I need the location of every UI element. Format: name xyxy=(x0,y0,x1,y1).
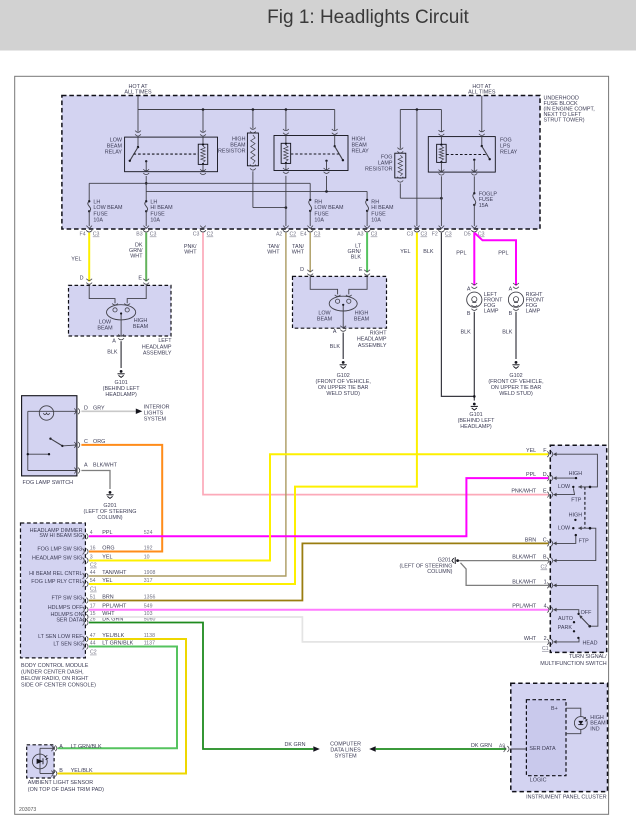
BCM pin 54 YEL 317 xyxy=(31,578,152,587)
wire BLK right headlamp ground xyxy=(330,333,343,359)
svg-text:WHT: WHT xyxy=(184,250,197,256)
svg-text:F4: F4 xyxy=(80,232,86,238)
title banner xyxy=(0,0,636,51)
svg-text:1356: 1356 xyxy=(144,594,156,600)
svg-text:C1: C1 xyxy=(542,646,549,652)
svg-text:A3: A3 xyxy=(357,232,363,238)
svg-text:D: D xyxy=(80,275,84,281)
ground G102 right fog lamp xyxy=(488,361,544,397)
switch connector C2 label xyxy=(541,565,548,571)
wire YEL fog relay control to BCM and dimmer switch feed xyxy=(89,233,417,584)
wire DK GRN serial data into cluster xyxy=(499,744,556,753)
svg-text:549: 549 xyxy=(144,603,153,609)
svg-text:LT SEN SIG: LT SEN SIG xyxy=(53,642,82,648)
svg-text:A9: A9 xyxy=(499,744,505,750)
svg-text:HEADLAMP): HEADLAMP) xyxy=(105,392,137,398)
indicator high beam IND xyxy=(566,708,606,734)
ground G101 left fog lamp xyxy=(458,403,496,430)
svg-text:HI BEAM: HI BEAM xyxy=(150,205,173,211)
wire GRY to interior lights system xyxy=(81,405,169,423)
connector C3 C3 at fuse block bottom xyxy=(407,226,428,238)
svg-text:WHT: WHT xyxy=(524,636,537,642)
svg-text:A: A xyxy=(467,286,471,292)
svg-text:TURN SIGNAL/: TURN SIGNAL/ xyxy=(569,654,607,660)
body control module xyxy=(21,523,97,688)
BCM pin 3 YEL 10 xyxy=(32,554,150,563)
svg-text:FTP: FTP xyxy=(579,538,590,544)
svg-text:LOGIC: LOGIC xyxy=(530,777,547,783)
svg-text:HEAD: HEAD xyxy=(583,641,598,647)
svg-text:4: 4 xyxy=(90,530,93,536)
svg-text:RESISTOR: RESISTOR xyxy=(365,166,393,172)
multifunction switch terminal 2 WHT xyxy=(524,636,553,645)
BCM pin 26 DK GRN 5060 xyxy=(56,616,155,625)
wire BLK/WHT switch B to ground G201 xyxy=(459,560,548,562)
wire TAN/WHT to right headlamp low beam xyxy=(292,233,310,273)
svg-text:BEAM: BEAM xyxy=(133,324,149,330)
BCM pin 51 BRN 1356 xyxy=(51,594,155,603)
svg-text:54: 54 xyxy=(90,578,96,584)
svg-text:BLK: BLK xyxy=(107,349,118,355)
BCM pin 44 TAN/WHT 1908 xyxy=(29,570,155,579)
svg-text:LAMP: LAMP xyxy=(484,308,499,314)
svg-text:MULTIFUNCTION SWITCH: MULTIFUNCTION SWITCH xyxy=(540,661,606,667)
svg-text:FTP SW SIG: FTP SW SIG xyxy=(51,596,82,602)
connector A2 C2 at fuse block bottom xyxy=(276,226,296,238)
svg-text:LT SEN LOW REF: LT SEN LOW REF xyxy=(38,634,83,640)
ambient light sensor xyxy=(27,744,104,793)
ground G201 left of steering column xyxy=(84,491,137,521)
svg-text:C2: C2 xyxy=(207,232,214,238)
svg-text:RESISTOR: RESISTOR xyxy=(218,148,246,154)
svg-text:C3: C3 xyxy=(193,232,200,238)
underhood fuse block xyxy=(62,95,595,229)
svg-text:YEL: YEL xyxy=(400,249,410,255)
svg-text:C3: C3 xyxy=(421,232,428,238)
svg-text:BLK/WHT: BLK/WHT xyxy=(512,579,537,585)
svg-text:BLK: BLK xyxy=(502,329,513,335)
svg-text:A: A xyxy=(59,744,63,750)
svg-text:YEL/BLK: YEL/BLK xyxy=(102,633,124,639)
svg-text:COLUMN): COLUMN) xyxy=(427,569,452,575)
wire BLK right fog lamp ground xyxy=(502,312,516,359)
svg-text:E: E xyxy=(543,489,547,495)
svg-text:WELD STUD): WELD STUD) xyxy=(326,391,360,397)
wire DK GRN 5060 serial data xyxy=(89,623,313,750)
svg-text:10: 10 xyxy=(144,554,150,560)
svg-text:LOW: LOW xyxy=(558,526,571,532)
svg-text:BLK: BLK xyxy=(460,329,471,335)
multifunction switch terminal D PPL xyxy=(526,472,553,481)
svg-text:C3: C3 xyxy=(150,232,157,238)
wire PPL fog lamp feed left xyxy=(456,233,474,286)
svg-text:C2: C2 xyxy=(541,565,548,571)
svg-text:B: B xyxy=(509,311,513,317)
svg-text:17: 17 xyxy=(90,603,96,609)
svg-text:BLK/WHT: BLK/WHT xyxy=(512,555,537,561)
svg-text:RIGHT: RIGHT xyxy=(370,330,387,336)
fuse F1 LH low beam fuse 10A xyxy=(88,199,123,226)
svg-text:WHT: WHT xyxy=(130,254,143,260)
switch connector C1 label xyxy=(542,646,549,652)
svg-text:10A: 10A xyxy=(150,217,160,223)
svg-text:203073: 203073 xyxy=(19,807,36,813)
ground G101 behind left headlamp xyxy=(103,370,141,398)
svg-text:HDLMPS OFF: HDLMPS OFF xyxy=(48,605,83,611)
wire BLK/WHT switch 1 to ground xyxy=(461,563,549,586)
wire WHT 103 BCM to switch 2 xyxy=(89,617,548,642)
svg-text:WHT: WHT xyxy=(292,250,305,256)
svg-text:STRUT TOWER): STRUT TOWER) xyxy=(544,117,585,123)
svg-text:RELAY: RELAY xyxy=(105,149,123,155)
wire YEL 10 BCM to dimmer switch F xyxy=(89,454,548,560)
wire ORG fog switch signal to BCM xyxy=(81,445,162,552)
svg-text:10A: 10A xyxy=(371,217,381,223)
svg-text:BRN: BRN xyxy=(525,537,536,543)
svg-text:FOG LMP RLY CTRL: FOG LMP RLY CTRL xyxy=(31,579,82,585)
svg-text:A: A xyxy=(112,339,116,345)
svg-text:A: A xyxy=(333,329,337,335)
svg-text:LOW BEAM: LOW BEAM xyxy=(314,205,344,211)
BCM pin 44 LT GRN/BLK 1137 xyxy=(53,640,155,649)
wire BLK left headlamp ground xyxy=(107,341,121,368)
ground G201 near multifunction switch xyxy=(399,557,459,575)
resistor high beam resistor xyxy=(218,128,287,209)
wire BRN 1356 BCM to switch C xyxy=(89,543,548,600)
BCM pin 16 ORG 192 xyxy=(37,545,152,554)
connector C3 C2 at fuse block bottom xyxy=(193,226,214,238)
wire fog relay coil to F2 connector xyxy=(440,176,442,226)
svg-text:COLUMN): COLUMN) xyxy=(97,515,122,521)
svg-text:C2: C2 xyxy=(90,563,97,569)
svg-text:AUTO: AUTO xyxy=(558,616,573,622)
svg-text:C3: C3 xyxy=(407,232,414,238)
svg-text:PPL: PPL xyxy=(456,250,466,256)
multifunction switch terminal 1 BLK/WHT xyxy=(512,579,553,588)
lamp right front fog lamp xyxy=(508,283,544,317)
svg-text:ASSEMBLY: ASSEMBLY xyxy=(358,343,387,349)
svg-text:B: B xyxy=(543,555,547,561)
svg-text:HIGH: HIGH xyxy=(569,512,583,518)
multifunction switch terminal B BLK/WHT xyxy=(512,555,553,564)
resistor fog lamp resistor xyxy=(365,148,443,200)
BCM pin 4 PPL 524 xyxy=(30,528,153,539)
BCM pin 47 YEL/BLK 1138 xyxy=(38,633,155,642)
svg-text:1137: 1137 xyxy=(144,640,155,646)
svg-text:BEAM: BEAM xyxy=(354,316,370,322)
svg-text:44: 44 xyxy=(90,640,96,646)
svg-text:(UNDER CENTER DASH,: (UNDER CENTER DASH, xyxy=(21,669,84,675)
svg-text:C: C xyxy=(543,537,547,543)
svg-text:PPL/WHT: PPL/WHT xyxy=(102,604,127,610)
svg-text:BLK: BLK xyxy=(351,255,362,261)
svg-text:10A: 10A xyxy=(314,217,324,223)
BCM connector C1 label xyxy=(90,587,97,593)
svg-text:HIGH: HIGH xyxy=(569,471,583,477)
svg-text:A: A xyxy=(84,463,88,469)
instrument panel cluster xyxy=(511,683,608,800)
connector F4 C3 at fuse block bottom xyxy=(80,226,100,238)
svg-text:RELAY: RELAY xyxy=(500,149,518,155)
left headlamp assembly xyxy=(69,275,173,356)
wire high beam relay output to fuses xyxy=(146,176,367,200)
svg-text:ASSEMBLY: ASSEMBLY xyxy=(143,351,172,357)
svg-text:D: D xyxy=(300,267,304,273)
wire main power rail xyxy=(138,108,335,131)
svg-text:47: 47 xyxy=(90,633,96,639)
BCM pin 15 WHT 103 xyxy=(50,611,152,620)
svg-text:LT GRN/BLK: LT GRN/BLK xyxy=(102,640,133,646)
svg-text:PPL: PPL xyxy=(102,530,112,536)
svg-text:ORG: ORG xyxy=(102,545,114,551)
svg-text:192: 192 xyxy=(144,545,153,551)
wire low beam relay output to fuses xyxy=(89,176,310,201)
svg-text:YEL: YEL xyxy=(102,578,112,584)
svg-text:BELOW RADIO, ON RIGHT: BELOW RADIO, ON RIGHT xyxy=(21,676,89,682)
svg-text:BODY CONTROL MODULE: BODY CONTROL MODULE xyxy=(21,663,89,669)
svg-text:10A: 10A xyxy=(93,217,103,223)
svg-text:B3: B3 xyxy=(136,232,142,238)
multifunction switch terminal F YEL xyxy=(526,448,553,457)
svg-text:YEL: YEL xyxy=(71,256,81,262)
svg-text:YEL/BLK: YEL/BLK xyxy=(71,768,93,774)
svg-text:HEADLAMP SW SIG: HEADLAMP SW SIG xyxy=(32,556,83,562)
node HOT AT ALL TIMES right feed xyxy=(468,84,496,132)
svg-text:F2: F2 xyxy=(432,232,438,238)
svg-text:LOW BEAM: LOW BEAM xyxy=(93,205,123,211)
svg-text:BLK/WHT: BLK/WHT xyxy=(93,463,118,469)
svg-text:FTP: FTP xyxy=(571,498,582,504)
wire PPL 524 BCM to dimmer switch D xyxy=(89,478,548,536)
multifunction switch terminal 4 PPL/WHT xyxy=(512,604,553,613)
lamp left front fog lamp xyxy=(467,283,503,317)
svg-text:BLK: BLK xyxy=(330,344,341,350)
svg-text:BEAM: BEAM xyxy=(317,316,333,322)
flash to pass switch section internals xyxy=(553,512,596,562)
BCM pin 17 PPL/WHT 549 xyxy=(48,603,153,612)
svg-text:D: D xyxy=(543,472,547,478)
svg-text:ALL TIMES: ALL TIMES xyxy=(468,90,496,96)
svg-text:HEADLAMP): HEADLAMP) xyxy=(460,424,492,430)
svg-text:C2: C2 xyxy=(290,232,297,238)
wire LT GRN/BLK to right headlamp high beam xyxy=(348,233,368,273)
svg-text:SIDE OF CENTER CONSOLE): SIDE OF CENTER CONSOLE) xyxy=(21,682,96,688)
svg-text:BLK: BLK xyxy=(423,249,434,255)
svg-text:PPL: PPL xyxy=(526,472,536,478)
relay K1 low beam relay xyxy=(105,131,218,175)
wire high beam relay coil to A2 connector xyxy=(285,176,287,226)
svg-text:BEAM: BEAM xyxy=(97,326,113,332)
svg-text:HEADLAMP: HEADLAMP xyxy=(142,344,172,350)
svg-text:524: 524 xyxy=(144,530,153,536)
connector A3 C3 at fuse block bottom xyxy=(357,226,377,238)
wire BLK left fog lamp ground xyxy=(460,312,475,401)
svg-text:HEADLAMP: HEADLAMP xyxy=(357,337,387,343)
svg-text:51: 51 xyxy=(90,594,96,600)
BCM connector C2 label lower xyxy=(90,650,97,656)
svg-text:1908: 1908 xyxy=(144,570,156,576)
wire DK GRN/WHT to left headlamp high beam xyxy=(129,233,146,282)
svg-text:PARK: PARK xyxy=(558,625,573,631)
wire TAN/WHT from high beam relay coil to BCM hi beam rel cntrl xyxy=(89,233,286,576)
wire BLK/WHT fog switch ground xyxy=(81,471,110,490)
svg-text:C2: C2 xyxy=(90,650,97,656)
svg-text:2: 2 xyxy=(544,636,547,642)
fuse F4 RH hi beam fuse 10A xyxy=(366,199,394,226)
svg-text:SYSTEM: SYSTEM xyxy=(335,754,358,760)
svg-text:Fig 1: Headlights Circuit: Fig 1: Headlights Circuit xyxy=(267,7,469,28)
svg-text:WHT: WHT xyxy=(267,250,280,256)
svg-text:4: 4 xyxy=(544,604,547,610)
wire BLK fog relay coil ground xyxy=(423,233,474,397)
svg-text:ALL TIMES: ALL TIMES xyxy=(124,90,152,96)
svg-text:HI BEAM: HI BEAM xyxy=(371,205,394,211)
relay K3 fog lamps relay xyxy=(428,130,517,175)
svg-text:C3: C3 xyxy=(445,232,452,238)
svg-text:15A: 15A xyxy=(479,203,489,209)
svg-text:A2: A2 xyxy=(276,232,282,238)
diagram number 203073 xyxy=(19,807,36,813)
svg-text:PPL/WHT: PPL/WHT xyxy=(512,604,537,610)
fog lamp switch xyxy=(22,396,118,486)
svg-text:INSTRUMENT PANEL CLUSTER: INSTRUMENT PANEL CLUSTER xyxy=(526,795,607,801)
svg-text:A: A xyxy=(509,286,513,292)
right headlamp assembly xyxy=(293,267,388,349)
svg-text:44: 44 xyxy=(90,570,96,576)
wire YEL/BLK 1138 to ambient light sensor B xyxy=(58,639,187,774)
node HOT AT ALL TIMES left feed xyxy=(124,84,152,110)
svg-text:SER DATA: SER DATA xyxy=(529,746,556,752)
svg-text:LAMP: LAMP xyxy=(526,308,541,314)
dimmer switch section internals xyxy=(553,452,597,528)
svg-text:HI BEAM REL CNTRL: HI BEAM REL CNTRL xyxy=(29,571,82,577)
connector B3 C3 at fuse block bottom xyxy=(136,226,156,238)
fuse F5 FOGLP fuse 15A xyxy=(473,176,498,226)
BCM connector C2 label upper xyxy=(90,563,97,569)
svg-text:FOG LAMP SWITCH: FOG LAMP SWITCH xyxy=(23,480,74,486)
IPC logic module xyxy=(526,700,566,784)
svg-text:TAN/WHT: TAN/WHT xyxy=(102,570,127,576)
multifunction switch terminal E PNK/WHT xyxy=(511,489,552,498)
wire fog sub rail xyxy=(400,108,441,226)
fuse F2 LH hi beam fuse 10A xyxy=(145,199,173,226)
svg-text:LEFT: LEFT xyxy=(158,338,172,344)
wire PPL/WHT 549 BCM to switch 4 xyxy=(89,609,548,611)
svg-text:DK GRN: DK GRN xyxy=(471,743,492,749)
svg-text:LOW: LOW xyxy=(558,484,571,490)
turn signal / multifunction switch xyxy=(540,445,607,667)
wire PPL fog lamp feed right xyxy=(474,233,516,286)
wire PNK/WHT from low beam relay coil to dimmer switch E xyxy=(184,233,548,495)
wire DK GRN computer data lines reference xyxy=(285,742,507,760)
svg-text:16: 16 xyxy=(90,545,96,551)
svg-text:D5: D5 xyxy=(464,232,471,238)
svg-text:E: E xyxy=(138,275,142,281)
svg-text:1138: 1138 xyxy=(144,633,155,639)
relay K2 high beam relay xyxy=(274,129,369,174)
svg-text:3: 3 xyxy=(90,554,93,560)
svg-text:YEL: YEL xyxy=(102,554,112,560)
svg-text:E: E xyxy=(359,267,363,273)
svg-text:(ON TOP OF DASH TRIM PAD): (ON TOP OF DASH TRIM PAD) xyxy=(28,787,104,793)
ground G102 right headlamp xyxy=(316,361,372,397)
headlamp switch section internals xyxy=(553,584,598,647)
svg-text:OFF: OFF xyxy=(581,610,592,616)
fuse F3 RH low beam fuse 10A xyxy=(309,199,344,226)
svg-text:C3: C3 xyxy=(314,232,321,238)
svg-text:SYSTEM: SYSTEM xyxy=(144,417,167,423)
svg-text:C3: C3 xyxy=(371,232,378,238)
svg-text:317: 317 xyxy=(144,578,153,584)
connector E4 C3 at fuse block bottom xyxy=(300,226,320,238)
connector F2 C3 at fuse block bottom xyxy=(432,226,452,238)
svg-text:B: B xyxy=(59,768,63,774)
svg-text:C3: C3 xyxy=(93,232,100,238)
svg-text:E4: E4 xyxy=(300,232,306,238)
svg-text:SER DATA: SER DATA xyxy=(56,618,83,624)
svg-text:LT GRN/BLK: LT GRN/BLK xyxy=(71,744,102,750)
svg-text:BRN: BRN xyxy=(102,594,113,600)
multifunction switch terminal C BRN xyxy=(525,537,553,546)
svg-text:YEL: YEL xyxy=(526,448,536,454)
wire YEL to left headlamp low beam xyxy=(71,233,89,282)
svg-text:WELD STUD): WELD STUD) xyxy=(499,391,533,397)
svg-text:PNK/WHT: PNK/WHT xyxy=(511,489,537,495)
svg-text:C1: C1 xyxy=(90,587,97,593)
svg-text:1: 1 xyxy=(544,579,547,585)
svg-text:FOG LMP SW SIG: FOG LMP SW SIG xyxy=(37,547,82,553)
svg-text:AMBIENT LIGHT SENSOR: AMBIENT LIGHT SENSOR xyxy=(28,780,94,786)
svg-text:IND: IND xyxy=(590,726,599,732)
svg-text:SW HI BEAM SIG: SW HI BEAM SIG xyxy=(39,533,82,539)
svg-text:RELAY: RELAY xyxy=(352,148,370,154)
svg-text:DK GRN: DK GRN xyxy=(285,742,306,748)
connector D5 C3 at fuse block bottom xyxy=(464,226,485,238)
svg-text:B: B xyxy=(467,311,471,317)
svg-text:PPL: PPL xyxy=(498,250,508,256)
wire LT GRN/BLK 1137 to ambient light sensor A xyxy=(58,647,178,749)
svg-text:B+: B+ xyxy=(551,706,558,712)
